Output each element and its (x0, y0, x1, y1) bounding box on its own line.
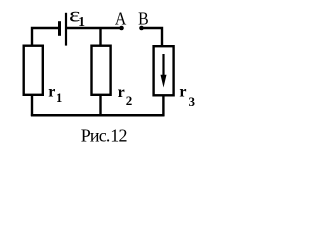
wire left branch bottom (31, 95, 33, 116)
svg-text:1: 1 (56, 91, 62, 105)
battery EMF source: short thick plate (58, 21, 61, 36)
svg-text:B: B (138, 9, 149, 29)
svg-text:1: 1 (78, 14, 85, 29)
wire middle branch top (99, 28, 101, 46)
svg-text:r: r (179, 84, 186, 101)
svg-text:A: A (115, 9, 127, 29)
wire from node B to right branch (143, 28, 162, 46)
svg-text:2: 2 (126, 93, 133, 108)
resistor r3 (154, 46, 174, 95)
wire bottom bus (31, 114, 165, 117)
current arrow inside r3: shaft (162, 54, 164, 77)
svg-text:r: r (48, 84, 55, 101)
wire from battery to node A (67, 27, 120, 29)
wire middle branch bottom (99, 95, 101, 116)
svg-text:Рис.: Рис. (81, 126, 110, 146)
resistor r2 (92, 46, 111, 95)
svg-text:r: r (118, 84, 125, 101)
wire top-left segment from left branch to battery (32, 28, 58, 46)
wire right branch bottom (162, 95, 164, 116)
battery EMF source: long thin plate (65, 13, 67, 46)
current arrow inside r3: head (161, 75, 167, 88)
node B terminal dot (139, 26, 144, 31)
resistor r1 (24, 46, 43, 95)
node A terminal dot (119, 26, 124, 31)
svg-text:12: 12 (110, 126, 126, 146)
svg-text:3: 3 (189, 94, 196, 109)
